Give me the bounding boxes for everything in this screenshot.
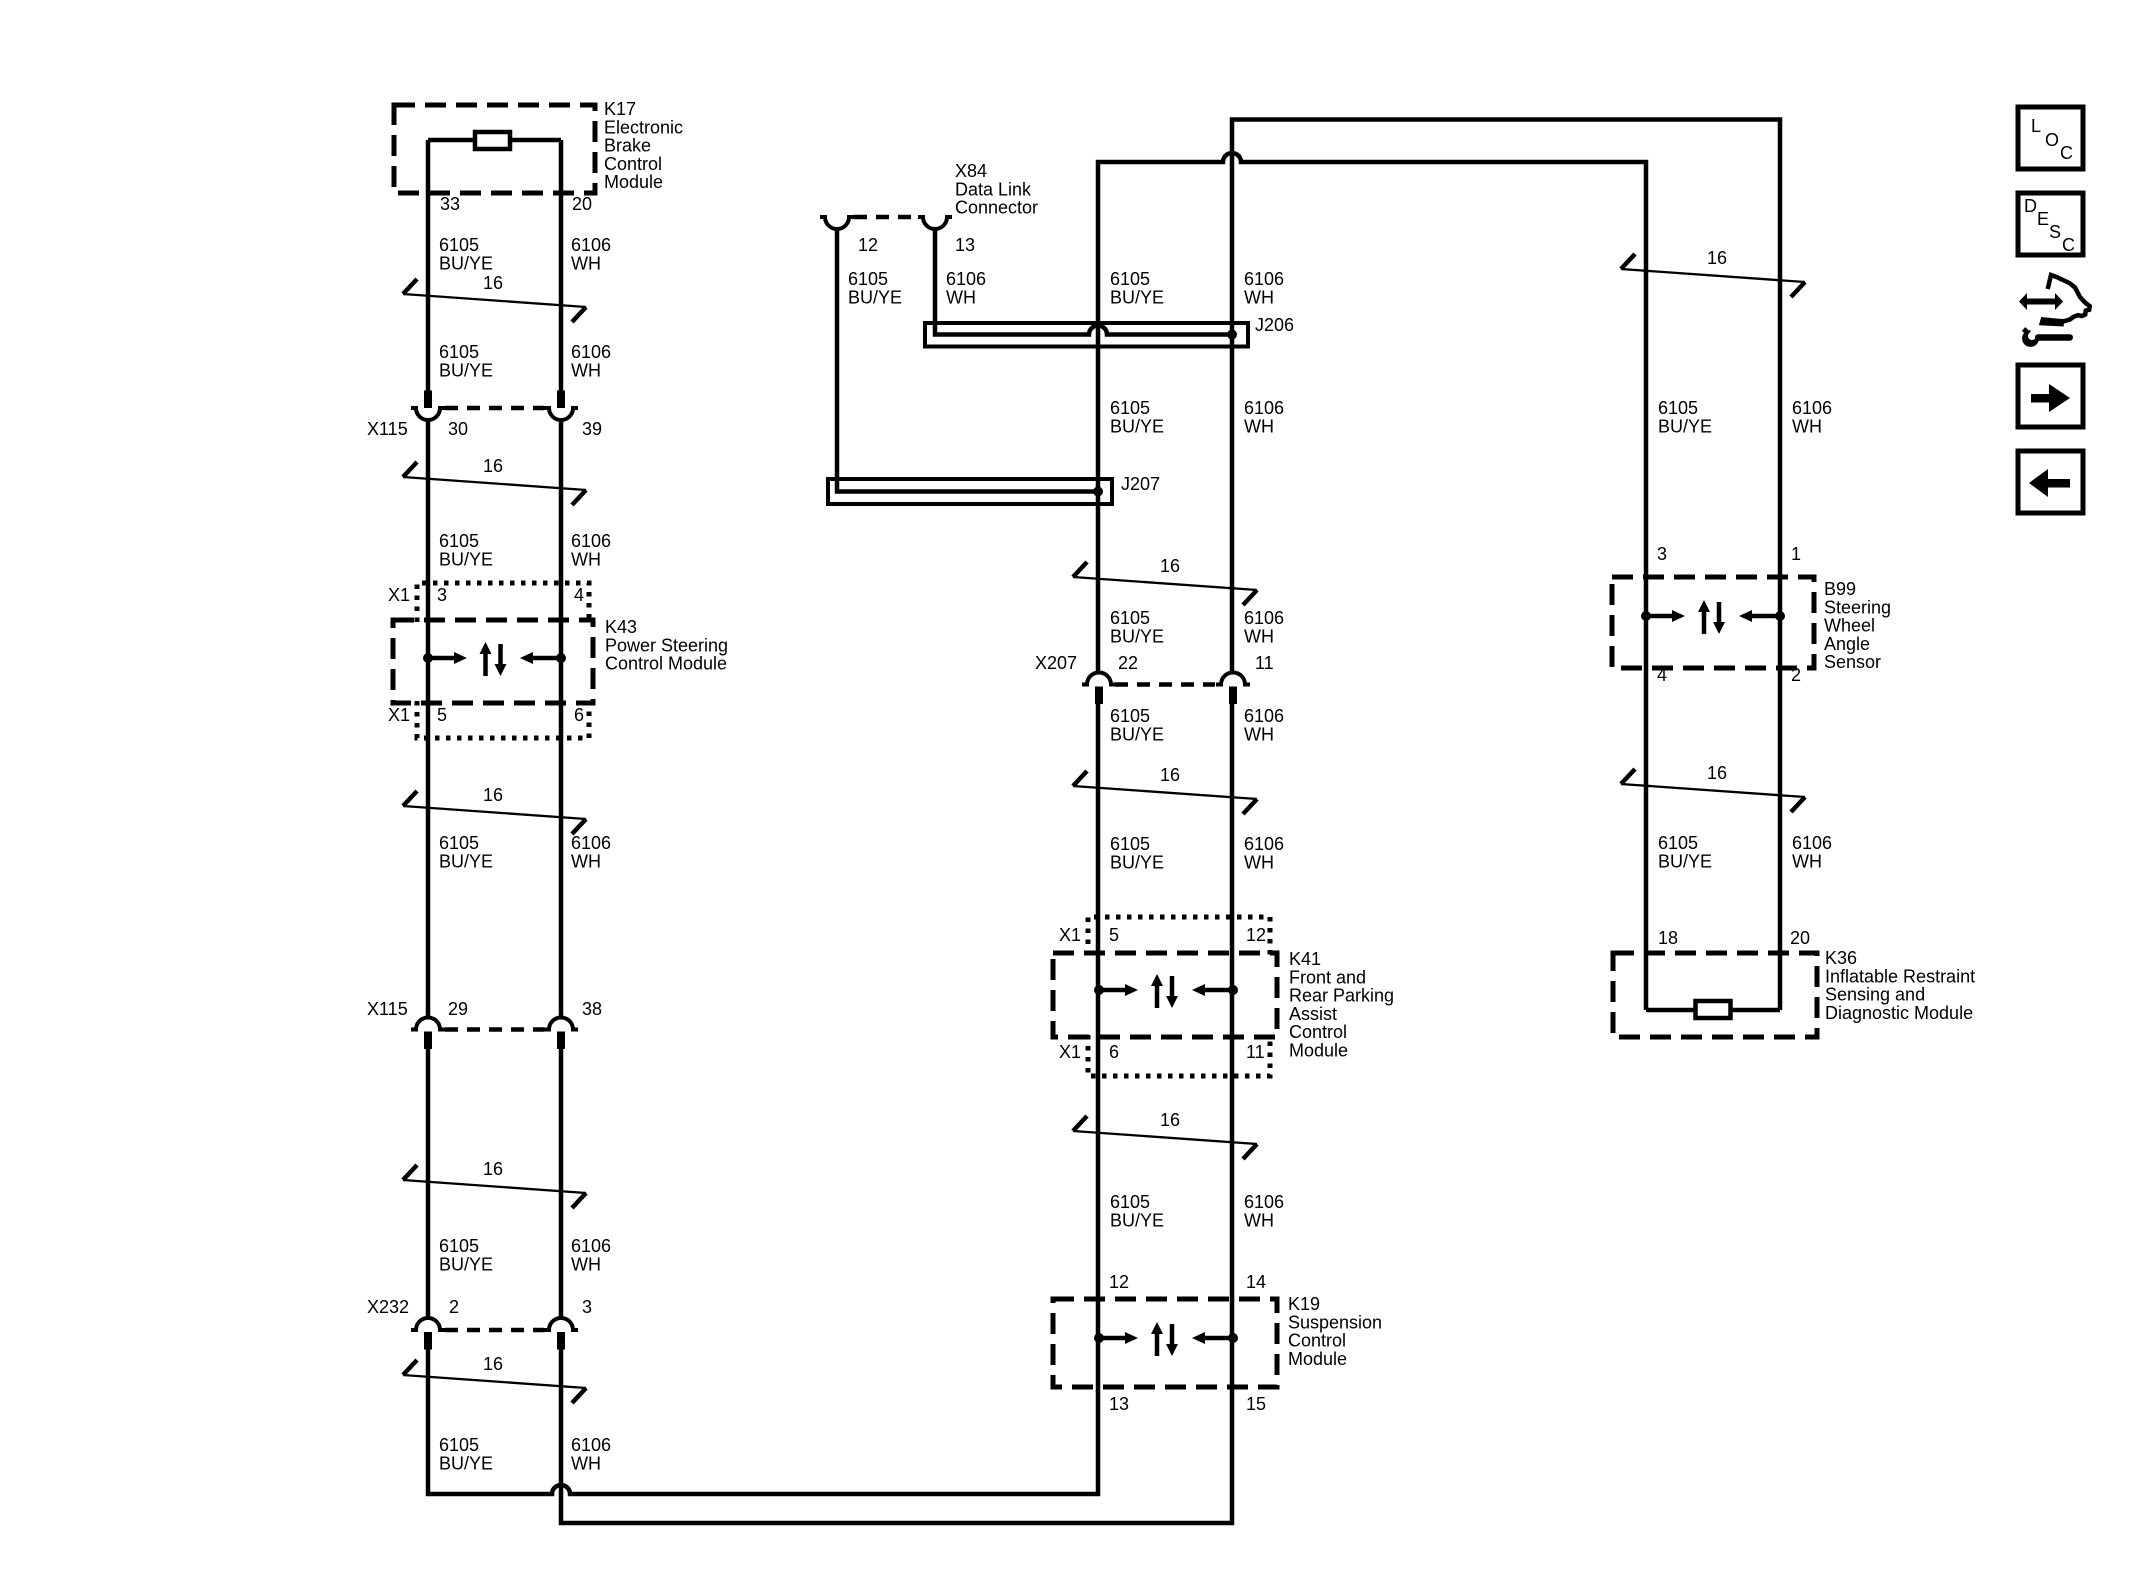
- wire label 6106 WH: [571, 531, 611, 569]
- connector X207 male terminal pin 22: [1095, 687, 1103, 705]
- svg-text:6105: 6105: [1658, 398, 1698, 418]
- module K41 serial-data symbol: [1094, 974, 1238, 1008]
- wire label 6106 WH (below X207): [1244, 706, 1284, 744]
- connector X115 dashed body (second): [445, 1027, 544, 1032]
- svg-text:5: 5: [1109, 925, 1119, 945]
- svg-text:WH: WH: [571, 360, 601, 380]
- wire 6106 WH bottom run to K19 pin 15: [561, 704, 1232, 1524]
- svg-text:12: 12: [858, 235, 878, 255]
- connector X115 dashed body: [445, 406, 544, 411]
- module B99 Steering Wheel Angle Sensor - dashed box: [1612, 577, 1814, 668]
- svg-text:WH: WH: [1244, 626, 1274, 646]
- connector X84 female terminal pin 13: [918, 217, 952, 229]
- wire label 6105 BU/YE: [439, 1236, 493, 1274]
- module K43 Power Steering Control Module - dashed box: [393, 620, 593, 703]
- module K41 label: [1289, 949, 1394, 1061]
- svg-text:6105: 6105: [439, 833, 479, 853]
- svg-text:WH: WH: [571, 1453, 601, 1473]
- splice pack J207 housing: [828, 479, 1112, 504]
- connector X232 male terminal pin 2: [424, 1332, 432, 1350]
- splice J206 label: [1255, 315, 1294, 335]
- wire 6105 BU/YE bottom run to K19 pin 13 (hop over 6106): [428, 704, 1098, 1495]
- svg-text:Module: Module: [1289, 1041, 1348, 1061]
- svg-text:BU/YE: BU/YE: [439, 1254, 493, 1274]
- pin 6 (K41 X1): [1109, 1042, 1119, 1062]
- svg-text:X115: X115: [367, 999, 408, 1019]
- connector X232 female terminal pin 3: [544, 1318, 578, 1330]
- svg-text:6105: 6105: [1658, 833, 1698, 853]
- pin 39 (X115): [582, 419, 602, 439]
- svg-text:12: 12: [1246, 925, 1266, 945]
- connector X84 label: [955, 161, 1038, 218]
- svg-text:6105: 6105: [848, 269, 888, 289]
- wire label 6106 WH: [571, 1435, 611, 1473]
- wire label 6106 WH (above K41): [1244, 834, 1284, 872]
- pin 20 (K17): [572, 194, 592, 214]
- svg-text:20: 20: [572, 194, 592, 214]
- svg-text:Sensing and: Sensing and: [1825, 985, 1925, 1005]
- svg-text:6106: 6106: [1244, 269, 1284, 289]
- svg-text:WH: WH: [571, 1254, 601, 1274]
- junction dot J207 on 6105 BU/YE: [1093, 487, 1103, 497]
- pin 12 (K19): [1109, 1272, 1129, 1292]
- connector X115 female terminal pin 29: [411, 1018, 445, 1030]
- icon LOC letters: [2031, 116, 2073, 163]
- pin 3 (B99): [1657, 544, 1667, 564]
- svg-text:Module: Module: [604, 172, 663, 192]
- svg-text:6105: 6105: [439, 1435, 479, 1455]
- svg-text:6106: 6106: [571, 833, 611, 853]
- svg-text:X207: X207: [1035, 653, 1077, 673]
- svg-text:4: 4: [1657, 665, 1667, 685]
- module B99 label: [1824, 579, 1891, 672]
- svg-text:22: 22: [1118, 653, 1138, 673]
- svg-text:16: 16: [1707, 248, 1727, 268]
- wire label 6105 BU/YE (right lower): [1658, 833, 1712, 871]
- icon forward arrow: [2031, 384, 2070, 412]
- svg-text:Suspension: Suspension: [1288, 1312, 1382, 1332]
- pin 33 (K17): [440, 194, 460, 214]
- module K19 label: [1288, 1294, 1382, 1369]
- pin 13 (K19): [1109, 1394, 1129, 1414]
- pin 2 (B99): [1791, 665, 1801, 685]
- wire label 6106 WH: [571, 235, 611, 273]
- wire 6106 WH left segment K17 to X115: [559, 140, 564, 408]
- svg-text:BU/YE: BU/YE: [1110, 1210, 1164, 1230]
- icon DESC box: [2018, 193, 2083, 255]
- wire label 6105 BU/YE (above K19): [1110, 1192, 1164, 1230]
- svg-text:BU/YE: BU/YE: [1110, 852, 1164, 872]
- wire label 6106 WH: [571, 342, 611, 380]
- pin 2 (X232): [449, 1297, 459, 1317]
- svg-text:WH: WH: [1792, 416, 1822, 436]
- splice pack J206 housing: [925, 323, 1248, 347]
- pin 11 (X207): [1255, 653, 1274, 673]
- svg-text:3: 3: [582, 1297, 592, 1317]
- pin 13 (X84): [955, 235, 975, 255]
- svg-text:X84: X84: [955, 161, 987, 181]
- svg-text:Brake: Brake: [604, 136, 651, 156]
- wire K36 internal horizontal: [1646, 1008, 1780, 1013]
- wire label 6105 BU/YE: [439, 833, 493, 871]
- connector X1 lower dotted box at K41: [1088, 1035, 1270, 1076]
- wire label 6105 BU/YE (below X207): [1110, 706, 1164, 744]
- svg-text:WH: WH: [571, 549, 601, 569]
- svg-text:C: C: [2062, 235, 2075, 255]
- connector X207 dashed body: [1115, 682, 1215, 687]
- wire label 6105 BU/YE: [439, 235, 493, 273]
- svg-text:K36: K36: [1825, 948, 1857, 968]
- svg-text:BU/YE: BU/YE: [1110, 626, 1164, 646]
- icon forward arrow box: [2018, 365, 2083, 427]
- svg-text:6106: 6106: [571, 1236, 611, 1256]
- svg-text:B99: B99: [1824, 579, 1856, 599]
- svg-text:14: 14: [1246, 1272, 1266, 1292]
- pin 22 (X207): [1118, 653, 1138, 673]
- svg-text:6106: 6106: [1244, 834, 1284, 854]
- svg-text:X1: X1: [388, 705, 410, 725]
- connector X115 male terminal pin 29: [424, 1032, 432, 1050]
- svg-text:11: 11: [1255, 653, 1274, 673]
- wire label 6105 BU/YE (below J206): [1110, 398, 1164, 436]
- icon wrench: [2022, 327, 2073, 347]
- svg-text:5: 5: [437, 705, 447, 725]
- connector X84 female terminal pin 12: [820, 217, 854, 229]
- svg-text:Connector: Connector: [955, 198, 1038, 218]
- svg-text:Diagnostic Module: Diagnostic Module: [1825, 1003, 1973, 1023]
- wire 6105 BU/YE from X84 pin 12 into J207: [837, 229, 1098, 492]
- svg-text:6: 6: [1109, 1042, 1119, 1062]
- svg-text:6105: 6105: [1110, 834, 1150, 854]
- svg-text:6105: 6105: [439, 235, 479, 255]
- svg-text:11: 11: [1246, 1042, 1265, 1062]
- svg-text:BU/YE: BU/YE: [1110, 416, 1164, 436]
- svg-text:Control: Control: [604, 154, 662, 174]
- svg-text:6105: 6105: [439, 531, 479, 551]
- wire label 6106 WH (right lower): [1792, 833, 1832, 871]
- svg-text:L: L: [2031, 116, 2041, 136]
- connector X207 label: [1035, 653, 1077, 673]
- svg-text:Electronic: Electronic: [604, 117, 683, 137]
- svg-text:3: 3: [1657, 544, 1667, 564]
- connector X115 female terminal pin 30: [411, 408, 445, 420]
- svg-text:K19: K19: [1288, 1294, 1320, 1314]
- svg-text:BU/YE: BU/YE: [439, 253, 493, 273]
- icon back arrow: [2029, 469, 2070, 497]
- svg-text:16: 16: [483, 1354, 503, 1374]
- wire label 6106 WH (above X207): [1244, 608, 1284, 646]
- wire gauge 16 crossing (right, below B99): [1621, 763, 1805, 812]
- icon DESC letters: [2024, 196, 2075, 255]
- connector X232 male terminal pin 3: [557, 1332, 565, 1350]
- connector X1 label (K41 upper): [1059, 925, 1081, 945]
- module B99 serial-data symbol: [1641, 600, 1785, 634]
- pin 4 (K43 X1): [574, 585, 584, 605]
- svg-text:J206: J206: [1255, 315, 1294, 335]
- svg-text:6105: 6105: [1110, 608, 1150, 628]
- connector X1 label (K41 lower): [1059, 1042, 1081, 1062]
- svg-text:6106: 6106: [1244, 706, 1284, 726]
- svg-text:30: 30: [448, 419, 468, 439]
- connector X115 female terminal pin 39: [544, 408, 578, 420]
- svg-text:BU/YE: BU/YE: [439, 1453, 493, 1473]
- connector X232 dashed body: [445, 1328, 544, 1333]
- wire gauge 16 crossing (left, below X232): [403, 1354, 586, 1403]
- svg-text:38: 38: [582, 999, 602, 1019]
- wire gauge 16 crossing (left, below K43): [403, 785, 586, 834]
- wire 6105 BU/YE left segment K17 to X115: [426, 140, 431, 408]
- icon LOC box: [2018, 107, 2083, 169]
- wire label 6105 BU/YE: [439, 1435, 493, 1473]
- svg-text:WH: WH: [1244, 852, 1274, 872]
- module K43 label: [605, 617, 728, 674]
- wire label 6106 WH (middle top): [1244, 269, 1284, 307]
- connector X207 female terminal pin 22: [1082, 673, 1116, 685]
- wire label 6106 WH (X84 drop): [946, 269, 986, 307]
- svg-text:16: 16: [1707, 763, 1727, 783]
- wire 6105 BU/YE segment X115 to X115: [426, 421, 431, 1018]
- wire label 6105 BU/YE (above X207): [1110, 608, 1164, 646]
- svg-text:Steering: Steering: [1824, 597, 1891, 617]
- svg-text:6106: 6106: [571, 235, 611, 255]
- svg-text:Front and: Front and: [1289, 967, 1366, 987]
- svg-text:Sensor: Sensor: [1824, 652, 1881, 672]
- wire gauge 16 crossing (middle, above K19): [1073, 1110, 1257, 1159]
- svg-text:WH: WH: [1244, 1210, 1274, 1230]
- module K19 Suspension Control Module - dashed box: [1053, 1299, 1277, 1387]
- pin 5 (K41 X1): [1109, 925, 1119, 945]
- connector X1 label (upper): [388, 585, 410, 605]
- wire label 6106 WH (right top): [1792, 398, 1832, 436]
- pin 5 (K43 X1): [437, 705, 447, 725]
- svg-text:Wheel: Wheel: [1824, 616, 1875, 636]
- svg-text:16: 16: [1160, 1110, 1180, 1130]
- connector X115 male terminal pin 39 wire 6106: [557, 391, 565, 409]
- wire label 6106 WH (below J206): [1244, 398, 1284, 436]
- wire label 6105 BU/YE (X84 drop): [848, 269, 902, 307]
- pin 18 (K36): [1658, 928, 1678, 948]
- svg-text:Control: Control: [1289, 1022, 1347, 1042]
- svg-text:6105: 6105: [1110, 398, 1150, 418]
- wire gauge 16 crossing (middle, above X207): [1073, 556, 1257, 605]
- svg-text:Power Steering: Power Steering: [605, 635, 728, 655]
- svg-text:Rear Parking: Rear Parking: [1289, 986, 1394, 1006]
- module K17 label: [604, 99, 683, 192]
- svg-text:13: 13: [1109, 1394, 1129, 1414]
- svg-text:BU/YE: BU/YE: [1658, 416, 1712, 436]
- svg-text:Inflatable Restraint: Inflatable Restraint: [1825, 966, 1975, 986]
- svg-text:J207: J207: [1121, 474, 1160, 494]
- svg-text:Data Link: Data Link: [955, 179, 1032, 199]
- pin 14 (K19): [1246, 1272, 1266, 1292]
- wire label 6106 WH: [571, 833, 611, 871]
- pin 11 (K41 X1): [1246, 1042, 1265, 1062]
- svg-text:Module: Module: [1288, 1349, 1347, 1369]
- svg-text:BU/YE: BU/YE: [439, 549, 493, 569]
- wire K17 internal horizontal: [428, 138, 561, 143]
- svg-text:6106: 6106: [571, 531, 611, 551]
- connector X115 label (second): [367, 999, 408, 1019]
- module K41 Front and Rear Parking Assist Control Module - dashed box: [1053, 953, 1277, 1037]
- splice J207 label: [1121, 474, 1160, 494]
- module K43 serial-data symbol: [423, 642, 566, 676]
- pin 12 (K41 X1): [1246, 925, 1266, 945]
- pin 1 (B99): [1791, 544, 1801, 564]
- svg-text:K17: K17: [604, 99, 636, 119]
- junction dot J206 on 6106 WH: [1227, 330, 1237, 340]
- svg-text:16: 16: [1160, 556, 1180, 576]
- svg-text:S: S: [2049, 222, 2061, 242]
- svg-text:6106: 6106: [1792, 833, 1832, 853]
- wire gauge 16 crossing (left, below X115): [403, 456, 586, 505]
- pin 12 (X84): [858, 235, 878, 255]
- svg-text:6106: 6106: [1244, 608, 1284, 628]
- svg-text:12: 12: [1109, 1272, 1129, 1292]
- wire label 6105 BU/YE (middle top): [1110, 269, 1164, 307]
- svg-text:29: 29: [448, 999, 468, 1019]
- pin 4 (B99): [1657, 665, 1667, 685]
- svg-text:BU/YE: BU/YE: [848, 287, 902, 307]
- icon back arrow box: [2018, 451, 2083, 513]
- pin 3 (X232): [582, 1297, 592, 1317]
- connector X1 lower dotted box at K43: [417, 701, 589, 738]
- svg-text:2: 2: [1791, 665, 1801, 685]
- svg-text:Control: Control: [1288, 1331, 1346, 1351]
- pin 6 (K43 X1): [574, 705, 584, 725]
- svg-text:1: 1: [1791, 544, 1801, 564]
- module K36 label: [1825, 948, 1975, 1023]
- svg-text:6105: 6105: [1110, 269, 1150, 289]
- svg-text:BU/YE: BU/YE: [1110, 287, 1164, 307]
- wire label 6105 BU/YE (above K41): [1110, 834, 1164, 872]
- pin 30 (X115): [448, 419, 468, 439]
- wire 6106 WH segment X115 to X115: [559, 421, 564, 1018]
- wire label 6106 WH: [571, 1236, 611, 1274]
- svg-text:O: O: [2045, 130, 2059, 150]
- svg-text:WH: WH: [1244, 287, 1274, 307]
- module K19 serial-data symbol: [1094, 1322, 1238, 1356]
- svg-text:16: 16: [483, 1159, 503, 1179]
- connector X115 male terminal pin 38: [557, 1032, 565, 1050]
- connector X84 dashed body: [854, 215, 918, 220]
- svg-text:WH: WH: [571, 253, 601, 273]
- connector X1 label (lower): [388, 705, 410, 725]
- icon vehicle outline: [2042, 275, 2090, 324]
- connector X207 female terminal pin 11: [1216, 673, 1250, 685]
- wire 6105 BU/YE segment X115 to X232: [426, 1049, 431, 1318]
- connector X115 female terminal pin 38: [544, 1018, 578, 1030]
- svg-text:2: 2: [449, 1297, 459, 1317]
- connector X115 label: [367, 419, 408, 439]
- wire 6106 WH segment X115 to X232: [559, 1049, 564, 1318]
- wire label 6105 BU/YE: [439, 342, 493, 380]
- svg-text:6105: 6105: [439, 342, 479, 362]
- svg-text:13: 13: [955, 235, 975, 255]
- svg-text:20: 20: [1790, 928, 1810, 948]
- svg-text:X115: X115: [367, 419, 408, 439]
- svg-text:6106: 6106: [571, 1435, 611, 1455]
- wire gauge 16 crossing (right, top): [1621, 248, 1805, 297]
- pin 15 (K19): [1246, 1394, 1266, 1414]
- svg-text:6106: 6106: [1792, 398, 1832, 418]
- svg-text:WH: WH: [1244, 724, 1274, 744]
- svg-text:Angle: Angle: [1824, 634, 1870, 654]
- svg-text:X1: X1: [1059, 1042, 1081, 1062]
- svg-text:16: 16: [483, 785, 503, 805]
- svg-text:15: 15: [1246, 1394, 1266, 1414]
- svg-text:WH: WH: [946, 287, 976, 307]
- svg-text:WH: WH: [1792, 851, 1822, 871]
- pin 3 (K43 X1): [437, 585, 447, 605]
- svg-text:BU/YE: BU/YE: [439, 851, 493, 871]
- connector X207 male terminal pin 11: [1229, 687, 1237, 705]
- wire label 6106 WH (above K19): [1244, 1192, 1284, 1230]
- svg-text:16: 16: [1160, 765, 1180, 785]
- resistor terminating inside K17: [475, 132, 510, 149]
- connector X232 label: [367, 1297, 409, 1317]
- wire 6105 BU/YE top run (middle to right branch, hop over 6106): [1098, 153, 1646, 1010]
- wire label 6105 BU/YE (right top): [1658, 398, 1712, 436]
- icon vehicle double arrow: [2019, 293, 2063, 310]
- svg-text:6105: 6105: [1110, 706, 1150, 726]
- svg-text:E: E: [2037, 209, 2049, 229]
- svg-text:6106: 6106: [571, 342, 611, 362]
- wire gauge 16 crossing (left, below K17): [403, 273, 586, 322]
- svg-text:39: 39: [582, 419, 602, 439]
- module K17 Electronic Brake Control Module - dashed box: [394, 105, 595, 193]
- svg-text:6: 6: [574, 705, 584, 725]
- connector X232 female terminal pin 2: [411, 1318, 445, 1330]
- svg-text:X1: X1: [1059, 925, 1081, 945]
- svg-text:3: 3: [437, 585, 447, 605]
- svg-text:33: 33: [440, 194, 460, 214]
- wire label 6105 BU/YE: [439, 531, 493, 569]
- pin 20 (K36): [1790, 928, 1810, 948]
- pin 38 (X115): [582, 999, 602, 1019]
- svg-text:X1: X1: [388, 585, 410, 605]
- svg-text:D: D: [2024, 196, 2037, 216]
- svg-text:16: 16: [483, 456, 503, 476]
- svg-text:Control Module: Control Module: [605, 654, 727, 674]
- svg-text:4: 4: [574, 585, 584, 605]
- svg-text:WH: WH: [571, 851, 601, 871]
- svg-text:WH: WH: [1244, 416, 1274, 436]
- svg-text:X232: X232: [367, 1297, 409, 1317]
- svg-text:6105: 6105: [439, 1236, 479, 1256]
- svg-text:6106: 6106: [1244, 398, 1284, 418]
- resistor terminating inside K36: [1696, 1001, 1731, 1018]
- connector X115 male terminal pin 30 wire 6105: [424, 391, 432, 409]
- pin 29 (X115): [448, 999, 468, 1019]
- svg-text:16: 16: [483, 273, 503, 293]
- svg-text:C: C: [2060, 143, 2073, 163]
- svg-text:BU/YE: BU/YE: [1658, 851, 1712, 871]
- svg-text:BU/YE: BU/YE: [439, 360, 493, 380]
- connector X1 upper dotted box at K43: [417, 583, 589, 622]
- svg-text:Assist: Assist: [1289, 1004, 1337, 1024]
- wire 6106 WH top run (middle to right branch): [1232, 120, 1780, 1011]
- svg-text:K43: K43: [605, 617, 637, 637]
- wire gauge 16 crossing (middle, above K41): [1073, 765, 1257, 814]
- svg-text:18: 18: [1658, 928, 1678, 948]
- svg-text:6106: 6106: [946, 269, 986, 289]
- wire 6106 WH from X84 pin 13 into J206 (hop over 6105): [935, 229, 1232, 335]
- module K36 Inflatable Restraint Sensing and Diagnostic Module - dashed box: [1613, 953, 1817, 1037]
- wire gauge 16 crossing (left, above X232): [403, 1159, 586, 1208]
- svg-text:K41: K41: [1289, 949, 1321, 969]
- svg-text:6106: 6106: [1244, 1192, 1284, 1212]
- connector X1 upper dotted box at K41: [1088, 917, 1270, 955]
